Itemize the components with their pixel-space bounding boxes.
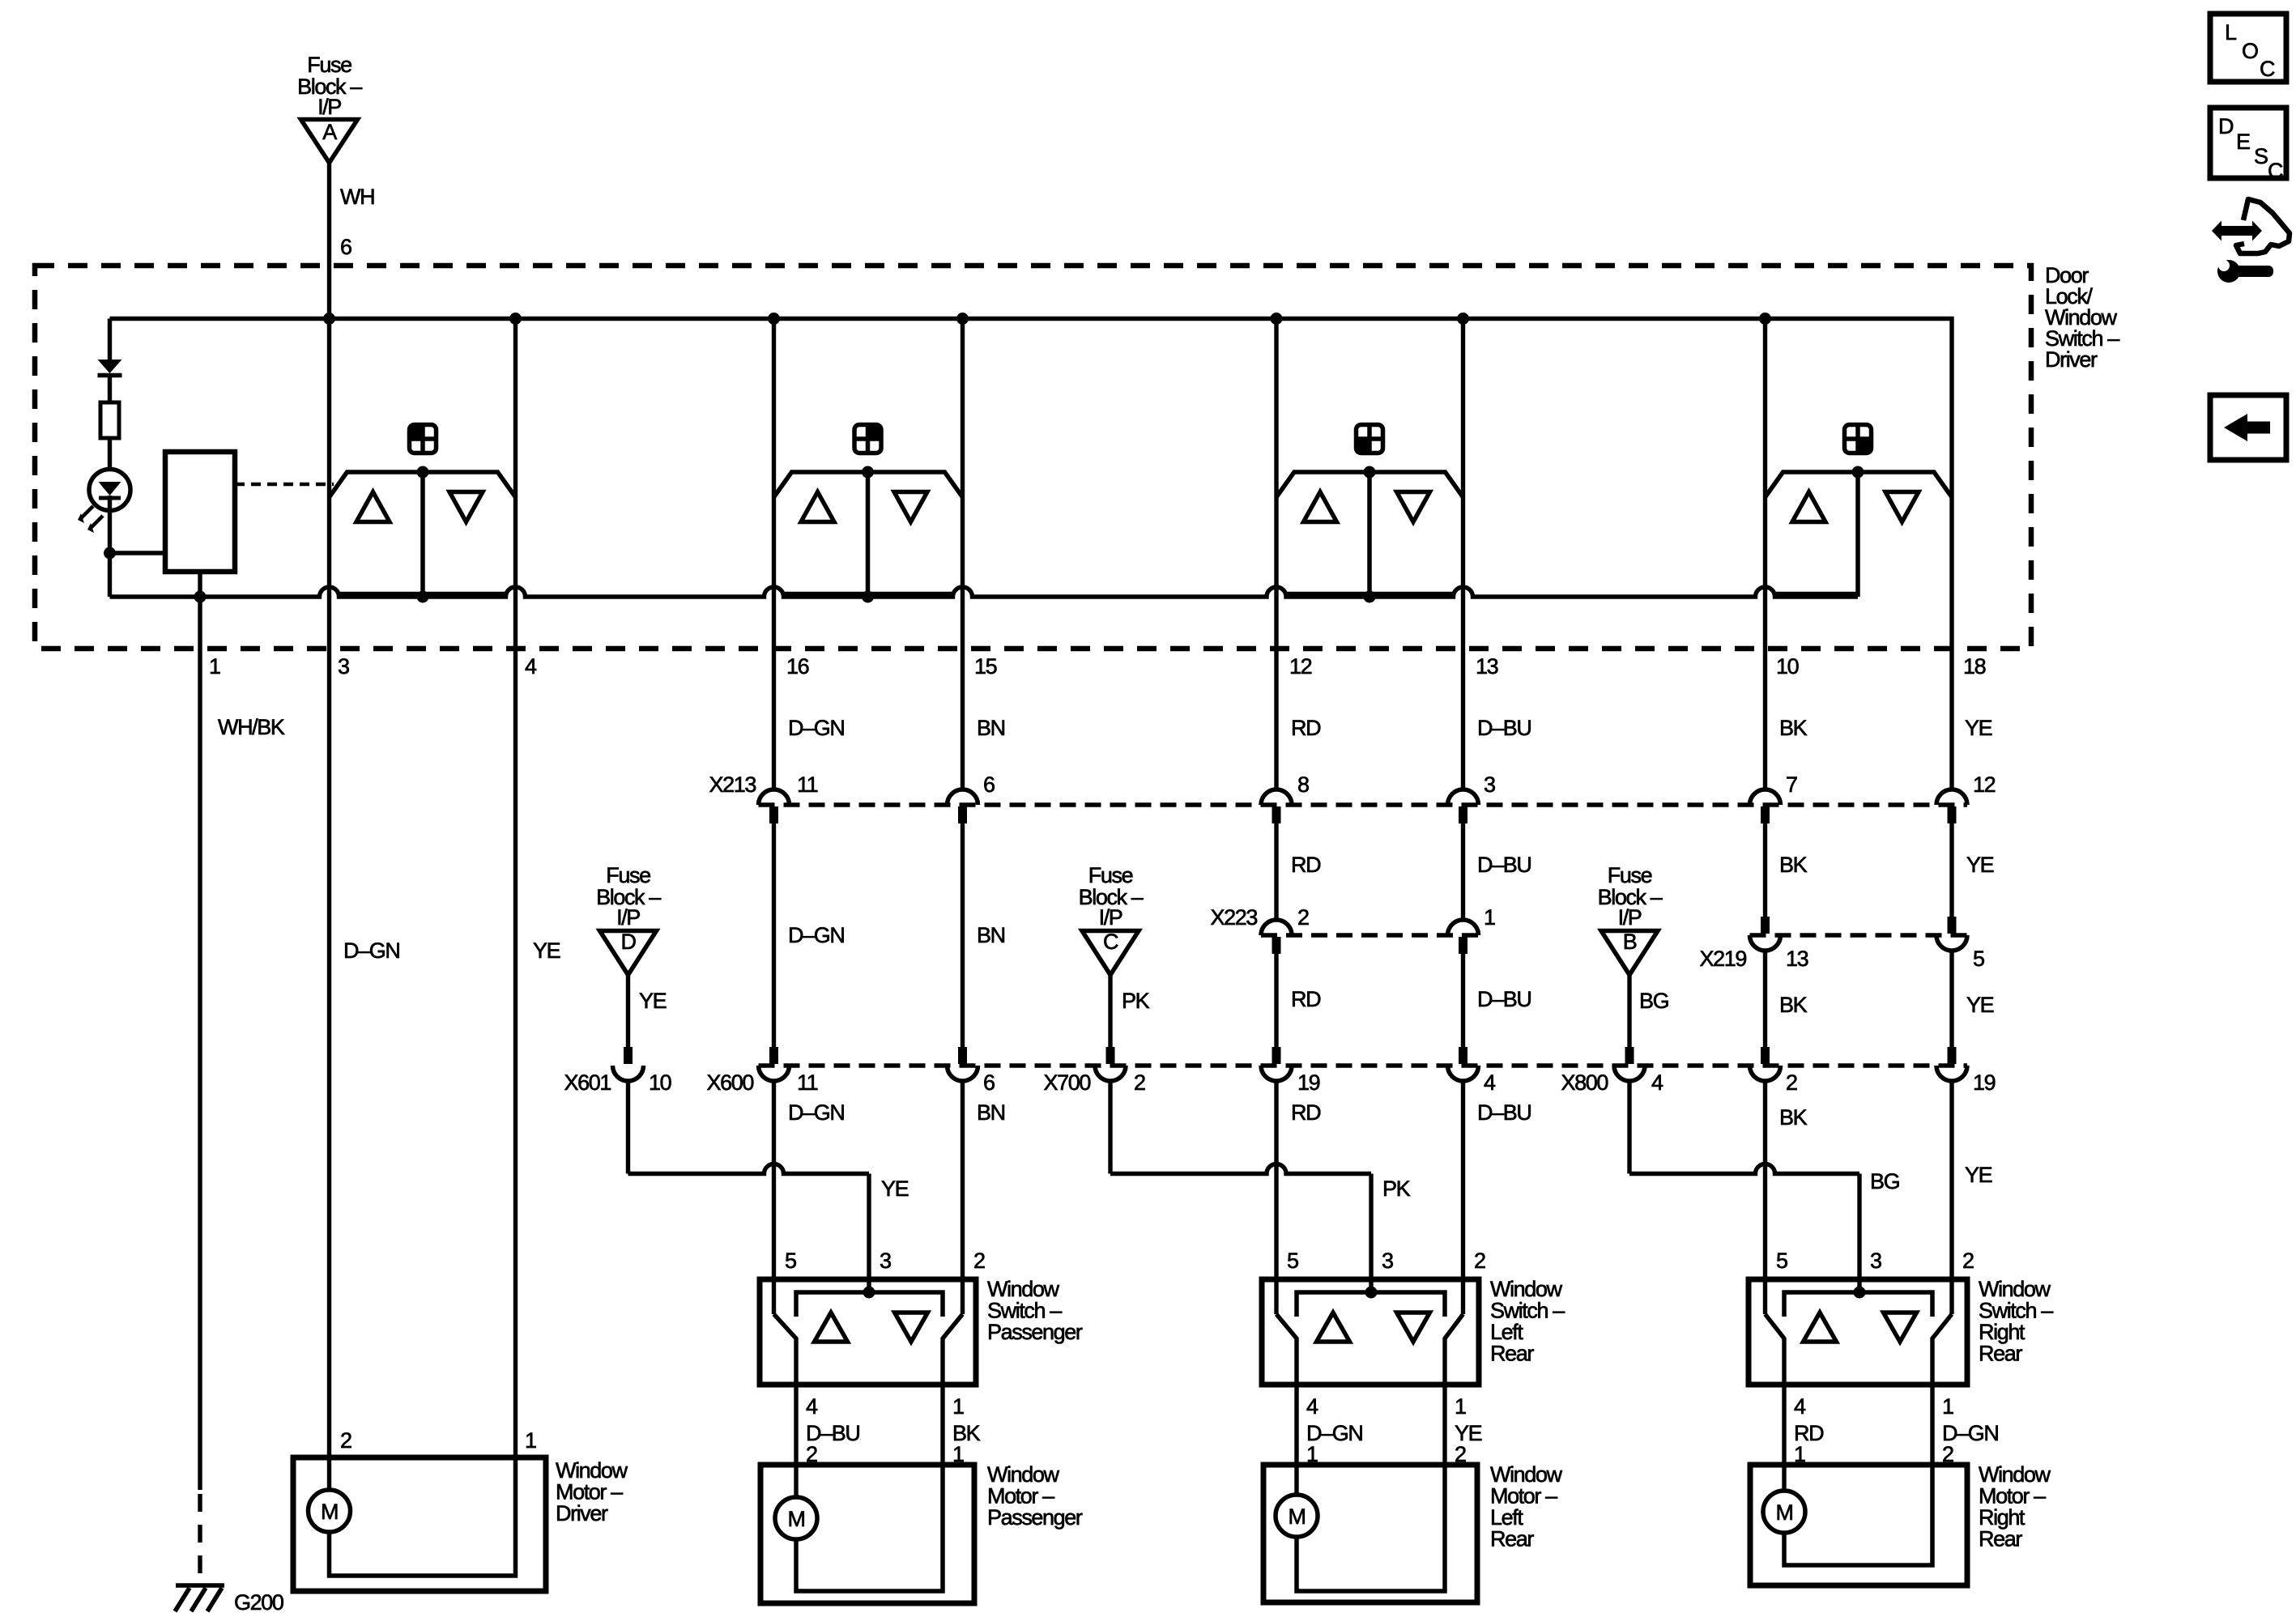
connector X800 pin 2 (wire10) <box>1750 1047 1798 1095</box>
ground G200 <box>175 1585 224 1611</box>
svg-text:YE: YE <box>1966 993 1994 1017</box>
window switch left-rear section <box>1276 319 1463 598</box>
connector X800 pin 4 (fuse B) <box>1561 1047 1663 1095</box>
svg-text:BN: BN <box>977 1100 1005 1125</box>
labels passenger motor wires <box>806 1394 981 1466</box>
fuse block B label <box>1598 863 1663 930</box>
svg-text:Right: Right <box>1979 1505 2026 1530</box>
svg-text:X223: X223 <box>1211 905 1258 930</box>
wire 15 segment B <box>961 806 965 1047</box>
connector X213 pin 7 (wire10) <box>1750 772 1798 823</box>
svg-text:19: 19 <box>1297 1070 1320 1095</box>
svg-text:BN: BN <box>977 923 1005 947</box>
wire 15 segment D <box>961 1081 965 1314</box>
junction dot switch3 divider bottom <box>1364 591 1376 603</box>
junction dot bus wire10 <box>1759 313 1771 325</box>
junction dot switch4 divider top <box>1852 466 1864 479</box>
wire fuse D <box>626 975 630 1047</box>
junction dot switch1 divider bottom <box>417 591 429 603</box>
wire 13 segment C <box>1461 937 1465 1047</box>
labels BK/YE row B <box>1779 853 1994 877</box>
svg-text:D: D <box>620 930 636 954</box>
svg-text:Driver: Driver <box>556 1501 608 1526</box>
svg-text:Left: Left <box>1490 1505 1523 1530</box>
svg-text:D–BU: D–BU <box>1477 853 1531 877</box>
svg-text:RD: RD <box>1291 853 1321 877</box>
connector X800 pin 19 (wire18) <box>1936 1047 1996 1095</box>
svg-text:16: 16 <box>786 654 809 679</box>
labels RD/D-BU row B <box>1291 853 1531 877</box>
svg-text:S: S <box>2254 144 2268 168</box>
rocker icon driver window <box>410 425 437 453</box>
window switch left-rear text <box>1490 1277 1565 1366</box>
fuse D triangle <box>600 930 657 975</box>
svg-text:1: 1 <box>525 1428 536 1453</box>
label BG fuse B <box>1639 989 1668 1013</box>
icon DESC box <box>2210 108 2286 183</box>
up arrow switch3 <box>1304 492 1337 522</box>
svg-text:Window: Window <box>987 1277 1060 1301</box>
svg-text:13: 13 <box>1786 947 1808 971</box>
junction dot right-rear switch pin3 <box>1854 1287 1866 1299</box>
svg-text:YE: YE <box>1965 716 1992 740</box>
connector X600 pin 11 (wire16) <box>707 1047 818 1095</box>
svg-text:RD: RD <box>1291 1100 1321 1125</box>
svg-text:5: 5 <box>1287 1249 1298 1273</box>
wire 10 segment C <box>1763 951 1767 1047</box>
connector X219 pin 13 (wire10) <box>1750 917 1808 971</box>
junction dot bus wire4 <box>509 313 522 325</box>
svg-text:C: C <box>1103 930 1118 954</box>
svg-text:6: 6 <box>983 1070 995 1095</box>
window motor driver box <box>293 1457 546 1591</box>
svg-text:8: 8 <box>1297 772 1309 797</box>
svg-text:B: B <box>1623 930 1637 954</box>
svg-text:2: 2 <box>1297 905 1309 930</box>
svg-text:Motor –: Motor – <box>987 1484 1054 1508</box>
motor M left-rear <box>1276 1495 1318 1537</box>
bottom bus wire <box>110 587 1859 597</box>
wire 18 segment A <box>1949 496 1953 789</box>
top bus wire <box>110 319 1953 496</box>
labels left-rear motor wires <box>1306 1394 1482 1466</box>
svg-text:D–BU: D–BU <box>1477 987 1531 1011</box>
wire 12 segment D <box>1274 1081 1278 1314</box>
label D-GN wire3 <box>343 938 399 963</box>
junction dot bus wire13 <box>1457 313 1469 325</box>
svg-text:M: M <box>1288 1504 1305 1529</box>
wire bus to diode <box>108 319 112 360</box>
junction dot bus wire12 <box>1271 313 1283 325</box>
labels D-GN/BN mid <box>788 923 1005 947</box>
window motor right-rear text <box>1979 1462 2051 1551</box>
connector X213 pin 6 (wire15) <box>948 772 995 823</box>
window motor right-rear box <box>1750 1465 1967 1585</box>
svg-text:Driver: Driver <box>2045 347 2098 372</box>
wire 12 segment A <box>1274 597 1278 789</box>
svg-text:X700: X700 <box>1044 1070 1091 1095</box>
svg-text:Window: Window <box>556 1458 628 1483</box>
wires left-rear switch to motor <box>1297 1385 1445 1495</box>
svg-text:6: 6 <box>340 235 351 259</box>
svg-text:BN: BN <box>977 716 1005 740</box>
svg-text:Window: Window <box>1490 1277 1563 1301</box>
connector X213 pin 8 (wire12) <box>1261 772 1309 823</box>
wire 13 segment D <box>1461 1081 1465 1314</box>
label pin 6 <box>340 235 351 259</box>
window switch passenger section <box>774 319 963 598</box>
svg-text:Passenger: Passenger <box>987 1505 1083 1530</box>
svg-text:7: 7 <box>1786 772 1797 797</box>
svg-text:O: O <box>2242 39 2258 63</box>
window switch left-rear box <box>1262 1279 1479 1385</box>
LED indicator <box>89 470 130 512</box>
svg-text:11: 11 <box>797 1070 818 1095</box>
svg-text:10: 10 <box>649 1070 671 1095</box>
wire 3 D-GN <box>327 597 331 1490</box>
wire 10 segment B <box>1763 806 1767 917</box>
labels right-rear motor wires <box>1794 1394 1998 1466</box>
svg-text:12: 12 <box>1973 772 1996 797</box>
svg-text:4: 4 <box>1306 1394 1318 1419</box>
labels right-rear switch pins <box>1776 1249 1974 1273</box>
svg-text:X601: X601 <box>564 1070 611 1095</box>
svg-text:YE: YE <box>1966 853 1994 877</box>
dashed link module to switch <box>235 483 334 487</box>
door lock/window switch driver text <box>2045 263 2119 372</box>
svg-text:D–GN: D–GN <box>343 938 399 963</box>
junction dot bus wire16 <box>768 313 780 325</box>
svg-text:2: 2 <box>1134 1070 1145 1095</box>
svg-text:I/P: I/P <box>317 95 341 119</box>
connector X223 dashed line <box>1261 933 1479 938</box>
fuse block C label <box>1079 863 1144 930</box>
window switch driver-front section <box>330 319 516 598</box>
junction dot wire1/bus <box>194 591 207 603</box>
svg-text:1: 1 <box>209 654 220 679</box>
down arrow passenger switch <box>895 1313 928 1342</box>
wires passenger switch to motor <box>796 1385 943 1497</box>
motor driver inner wire <box>330 1457 516 1576</box>
wire YE fuse D jog <box>628 1081 870 1292</box>
svg-text:1: 1 <box>952 1394 964 1419</box>
wire 12 segment C <box>1274 937 1278 1047</box>
svg-text:3: 3 <box>880 1249 891 1273</box>
svg-text:3: 3 <box>1870 1249 1881 1273</box>
label WH <box>340 185 374 209</box>
svg-text:Rear: Rear <box>1979 1342 2022 1366</box>
wire 18 segment D <box>1949 1081 1953 1314</box>
wire 1 WH/BK to ground <box>198 597 202 1584</box>
connector X213 dashed line <box>759 802 1968 807</box>
svg-text:Window: Window <box>1979 1277 2051 1301</box>
window motor left-rear text <box>1490 1462 1563 1551</box>
svg-text:E: E <box>2236 130 2250 154</box>
rocker icon right-rear window <box>1845 425 1872 453</box>
down arrow left-rear switch <box>1397 1313 1430 1342</box>
up arrow right-rear switch <box>1804 1313 1837 1342</box>
fuse B triangle <box>1601 930 1658 975</box>
svg-text:M: M <box>1775 1500 1792 1525</box>
junction dot switch2 divider top <box>862 466 874 479</box>
svg-text:10: 10 <box>1776 654 1799 679</box>
junction dot bus/fuse-A <box>323 313 335 325</box>
svg-text:15: 15 <box>974 654 997 679</box>
svg-text:5: 5 <box>1776 1249 1787 1273</box>
wire fuse C <box>1108 975 1112 1047</box>
wire 10 segment D <box>1763 1081 1767 1314</box>
svg-text:Fuse: Fuse <box>606 863 650 887</box>
svg-text:4: 4 <box>806 1394 818 1419</box>
svg-text:Window: Window <box>1979 1462 2051 1487</box>
door lock/window switch driver dashed box <box>35 266 2031 649</box>
wire BG fuse B jog <box>1629 1081 1859 1292</box>
down arrow switch4 <box>1885 492 1919 522</box>
svg-text:D–BU: D–BU <box>1477 1100 1531 1125</box>
svg-text:I/P: I/P <box>1099 905 1122 930</box>
junction dot bus wire15 <box>956 313 969 325</box>
svg-text:YE: YE <box>881 1177 909 1201</box>
svg-text:Rear: Rear <box>1490 1342 1534 1366</box>
svg-text:L: L <box>2225 20 2237 45</box>
motor right-rear inner wire <box>1784 1465 1932 1565</box>
down arrow switch1 <box>449 492 483 522</box>
svg-text:M: M <box>321 1500 338 1524</box>
label BG jog <box>1870 1169 1899 1194</box>
fuse block D label <box>596 863 661 930</box>
junction dot switch1 divider top <box>417 466 429 479</box>
svg-text:Switch –: Switch – <box>1490 1299 1565 1323</box>
wire 13 segment B <box>1461 806 1465 920</box>
wire 16 segment A <box>772 597 776 789</box>
label WH/BK <box>218 715 285 739</box>
svg-text:Fuse: Fuse <box>307 53 351 77</box>
svg-text:X219: X219 <box>1700 947 1747 971</box>
labels left-rear switch pins <box>1287 1249 1485 1273</box>
svg-text:18: 18 <box>1963 654 1986 679</box>
label X213 <box>709 772 756 797</box>
wire 18 segment B <box>1949 806 1953 917</box>
svg-text:2: 2 <box>1786 1070 1797 1095</box>
wire 15 segment A <box>961 597 965 789</box>
down arrow switch3 <box>1397 492 1430 522</box>
wire 16 segment D <box>772 1081 776 1314</box>
svg-text:M: M <box>787 1507 804 1531</box>
wire fuse A to bus (WH) <box>327 163 331 319</box>
svg-text:13: 13 <box>1476 654 1498 679</box>
up arrow passenger switch <box>815 1313 848 1342</box>
svg-text:1: 1 <box>1455 1394 1466 1419</box>
window motor passenger text <box>987 1462 1083 1530</box>
wire junction to lock module <box>110 551 166 555</box>
rocker icon left-rear window <box>1357 425 1383 453</box>
wire 16 segment B <box>772 806 776 1047</box>
svg-text:C: C <box>2268 159 2283 183</box>
window switch passenger box <box>760 1279 976 1385</box>
svg-text:Motor –: Motor – <box>556 1480 623 1504</box>
svg-text:1: 1 <box>1942 1394 1953 1419</box>
svg-text:RD: RD <box>1291 987 1321 1011</box>
window motor left-rear box <box>1263 1465 1477 1602</box>
svg-text:PK: PK <box>1122 989 1150 1013</box>
svg-text:2: 2 <box>1962 1249 1974 1273</box>
door lock module box <box>165 452 235 572</box>
svg-text:Right: Right <box>1979 1320 2026 1344</box>
svg-text:X600: X600 <box>707 1070 754 1095</box>
svg-text:WH: WH <box>340 185 374 209</box>
svg-text:I/P: I/P <box>616 905 640 930</box>
svg-text:4: 4 <box>1794 1394 1806 1419</box>
svg-text:D–GN: D–GN <box>788 716 844 740</box>
labels RD/D-BU row C <box>1291 987 1531 1011</box>
LED arrows <box>78 506 103 533</box>
svg-text:A: A <box>322 120 337 144</box>
connector X700 pin 2 (fuse C) <box>1044 1047 1145 1095</box>
junction dot switch3 divider top <box>1364 466 1376 479</box>
svg-text:PK: PK <box>1382 1177 1411 1201</box>
motor passenger inner wire <box>796 1465 943 1591</box>
svg-text:BK: BK <box>1779 716 1808 740</box>
connector X219 pin 5 (wire18) <box>1936 917 1984 971</box>
connector X600 pin 6 (wire15) <box>948 1047 995 1095</box>
labels color row A <box>788 716 1992 740</box>
connector X213 pin 12 (wire18) <box>1936 772 1996 823</box>
wire 18 segment C <box>1949 951 1953 1047</box>
svg-text:3: 3 <box>338 654 349 679</box>
wire 13 segment A <box>1461 597 1465 789</box>
svg-text:2: 2 <box>1474 1249 1485 1273</box>
svg-text:3: 3 <box>1382 1249 1393 1273</box>
junction dot LED node <box>104 547 116 560</box>
connector X700 pin 19 (wire12) <box>1261 1047 1320 1095</box>
label X219 <box>1700 947 1747 971</box>
down arrow right-rear switch <box>1884 1313 1917 1342</box>
resistor R1 <box>100 402 119 470</box>
icon vehicle outline <box>2212 199 2290 253</box>
label PK fuse C <box>1122 989 1150 1013</box>
svg-text:Rear: Rear <box>1490 1527 1534 1551</box>
up arrow switch4 <box>1792 492 1825 522</box>
svg-text:X213: X213 <box>709 772 756 797</box>
junction dot switch2 divider bottom <box>862 591 874 603</box>
rocker icon passenger window <box>854 425 881 453</box>
svg-text:BK: BK <box>1779 853 1808 877</box>
svg-text:3: 3 <box>1484 772 1495 797</box>
svg-text:G200: G200 <box>234 1590 283 1615</box>
up arrow switch2 <box>801 492 834 522</box>
svg-text:BK: BK <box>1779 993 1808 1017</box>
svg-text:D: D <box>2218 114 2234 138</box>
labels passenger switch pins <box>785 1249 985 1273</box>
svg-text:RD: RD <box>1291 716 1321 740</box>
svg-text:YE: YE <box>639 989 667 1013</box>
label PK jog <box>1382 1177 1411 1201</box>
connector X223 pin 2 (wire12) <box>1261 905 1309 954</box>
pin labels under driver switch <box>209 654 1986 679</box>
wire LED junction down to bottom bus <box>108 553 112 597</box>
junction dot left-rear switch pin3 <box>1365 1287 1378 1299</box>
svg-text:Rear: Rear <box>1979 1527 2022 1551</box>
svg-text:4: 4 <box>525 654 537 679</box>
svg-text:WH/BK: WH/BK <box>218 715 285 739</box>
icon LOC box <box>2210 14 2286 82</box>
svg-text:Switch –: Switch – <box>1979 1299 2053 1323</box>
svg-text:Motor –: Motor – <box>1490 1484 1557 1508</box>
svg-text:YE: YE <box>533 938 560 963</box>
svg-text:4: 4 <box>1651 1070 1663 1095</box>
svg-text:BG: BG <box>1639 989 1668 1013</box>
svg-text:Window: Window <box>1490 1462 1563 1487</box>
svg-text:12: 12 <box>1289 654 1312 679</box>
icon back-arrow box <box>2210 395 2286 460</box>
connector X601 pin 10 (fuse D) <box>564 1047 671 1095</box>
up arrow left-rear switch <box>1317 1313 1350 1342</box>
wire PK fuse C jog <box>1110 1081 1371 1292</box>
connector X223 pin 1 (wire13) <box>1448 905 1496 954</box>
diode D1 <box>98 360 122 402</box>
motor left-rear inner wire <box>1297 1465 1445 1591</box>
wire 4 YE <box>513 597 518 1457</box>
wires right-rear switch to motor <box>1784 1385 1932 1491</box>
svg-text:Left: Left <box>1490 1320 1523 1344</box>
fuse A triangle <box>301 120 358 164</box>
label YE near right-rear switch <box>1965 1163 1992 1187</box>
svg-text:Fuse: Fuse <box>1088 863 1133 887</box>
down arrow switch2 <box>894 492 927 522</box>
connector X213 pin 3 (wire13) <box>1448 772 1496 823</box>
svg-text:1: 1 <box>1484 905 1495 930</box>
label YE fuse D <box>639 989 667 1013</box>
window motor driver text <box>556 1458 628 1526</box>
motor M passenger <box>775 1497 817 1539</box>
icon wrench <box>2217 260 2273 283</box>
svg-text:2: 2 <box>973 1249 985 1273</box>
svg-text:D–GN: D–GN <box>788 1100 844 1125</box>
svg-text:BK: BK <box>1779 1105 1808 1130</box>
svg-text:D–GN: D–GN <box>788 923 844 947</box>
labels RD/D-BU row D <box>1291 1100 1531 1125</box>
fuse C triangle <box>1082 930 1139 975</box>
wire module to bottom bus <box>198 572 202 597</box>
svg-text:5: 5 <box>1973 947 1984 971</box>
motor M driver <box>309 1490 351 1532</box>
window motor passenger box <box>760 1465 974 1603</box>
svg-text:4: 4 <box>1484 1070 1496 1095</box>
wire fuse B <box>1627 975 1631 1047</box>
connector X219 dashed line <box>1750 933 1968 938</box>
svg-text:Switch –: Switch – <box>987 1299 1062 1323</box>
junction dot passenger switch pin3 <box>863 1287 875 1299</box>
label BK row D <box>1779 1105 1808 1130</box>
labels D-GN/BN row D <box>788 1100 1005 1125</box>
svg-text:D–BU: D–BU <box>1477 716 1531 740</box>
svg-text:BG: BG <box>1870 1169 1899 1194</box>
connector X700 pin 4 (wire13) <box>1448 1047 1497 1095</box>
svg-text:2: 2 <box>340 1428 351 1453</box>
svg-text:19: 19 <box>1973 1070 1996 1095</box>
svg-text:Passenger: Passenger <box>987 1320 1083 1344</box>
svg-text:X800: X800 <box>1561 1070 1608 1095</box>
wire 10 segment A <box>1763 597 1767 789</box>
motor M right-rear <box>1763 1491 1805 1533</box>
window switch right-rear text <box>1979 1277 2053 1366</box>
connector X213 pin 11 (wire16) <box>759 772 818 823</box>
label G200 <box>234 1590 283 1615</box>
window switch right-rear section <box>1766 319 1953 598</box>
motor driver pin labels <box>340 1428 536 1453</box>
svg-text:11: 11 <box>797 772 818 797</box>
svg-text:5: 5 <box>785 1249 796 1273</box>
